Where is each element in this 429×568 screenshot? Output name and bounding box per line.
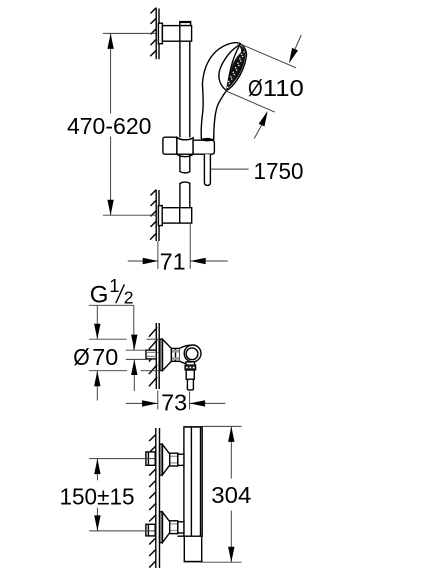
svg-text:71: 71 [160,248,186,274]
svg-text:110: 110 [263,75,304,101]
svg-text:70: 70 [92,344,118,370]
svg-text:470-620: 470-620 [67,113,152,139]
svg-text:1750: 1750 [254,158,304,184]
svg-text:304: 304 [211,482,251,508]
svg-text:73: 73 [161,389,187,415]
svg-text:Ø: Ø [73,344,89,370]
svg-text:1: 1 [109,275,119,296]
svg-text:Ø: Ø [248,75,263,102]
svg-text:G: G [90,282,109,309]
svg-text:2: 2 [124,288,134,308]
svg-text:150±15: 150±15 [60,484,135,510]
